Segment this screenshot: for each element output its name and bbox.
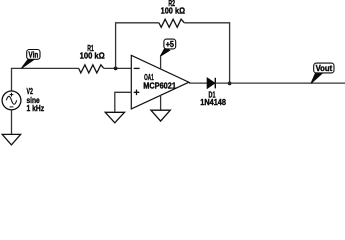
svg-text:1N4148: 1N4148 — [200, 98, 226, 107]
svg-text:100 kΩ: 100 kΩ — [161, 7, 186, 16]
diode D1 — [207, 78, 215, 88]
svg-text:100 kΩ: 100 kΩ — [80, 51, 106, 60]
svg-text:V2: V2 — [27, 87, 34, 96]
op-amp OA1 body — [131, 55, 189, 109]
resistor R2 — [159, 19, 184, 27]
flag +5 — [160, 39, 175, 56]
node junction at inverting input — [114, 67, 118, 71]
svg-text:MCP6021: MCP6021 — [143, 81, 176, 90]
svg-text:Vout: Vout — [316, 64, 333, 73]
wire R1 to inverting input — [104, 67, 132, 69]
wire negative supply pin — [160, 95, 162, 110]
resistor R1 — [79, 65, 104, 73]
wire op-amp output to diode — [189, 82, 207, 84]
wire source to ground — [11, 110, 13, 135]
wire positive supply pin — [160, 56, 162, 69]
node junction at output — [228, 82, 232, 86]
flag Vout — [311, 63, 334, 83]
flag Vin — [21, 50, 40, 69]
voltage source V2 — [2, 91, 21, 110]
svg-text:+5: +5 — [166, 40, 175, 49]
ground (source) — [2, 134, 20, 145]
ground (non-inverting input) — [105, 112, 124, 123]
wire non-inverting input to ground — [115, 92, 132, 111]
svg-text:Vin: Vin — [28, 50, 38, 59]
wire feedback right/down — [184, 23, 229, 84]
wire Vin node: source top to R1 — [12, 68, 79, 91]
wire diode to output edge — [215, 82, 345, 84]
ground (op-amp negative supply) — [151, 110, 170, 121]
op-amp plus symbol — [134, 90, 140, 96]
svg-text:1 kHz: 1 kHz — [27, 104, 45, 113]
op-amp minus symbol — [134, 67, 140, 69]
wire feedback left/top — [116, 23, 159, 69]
